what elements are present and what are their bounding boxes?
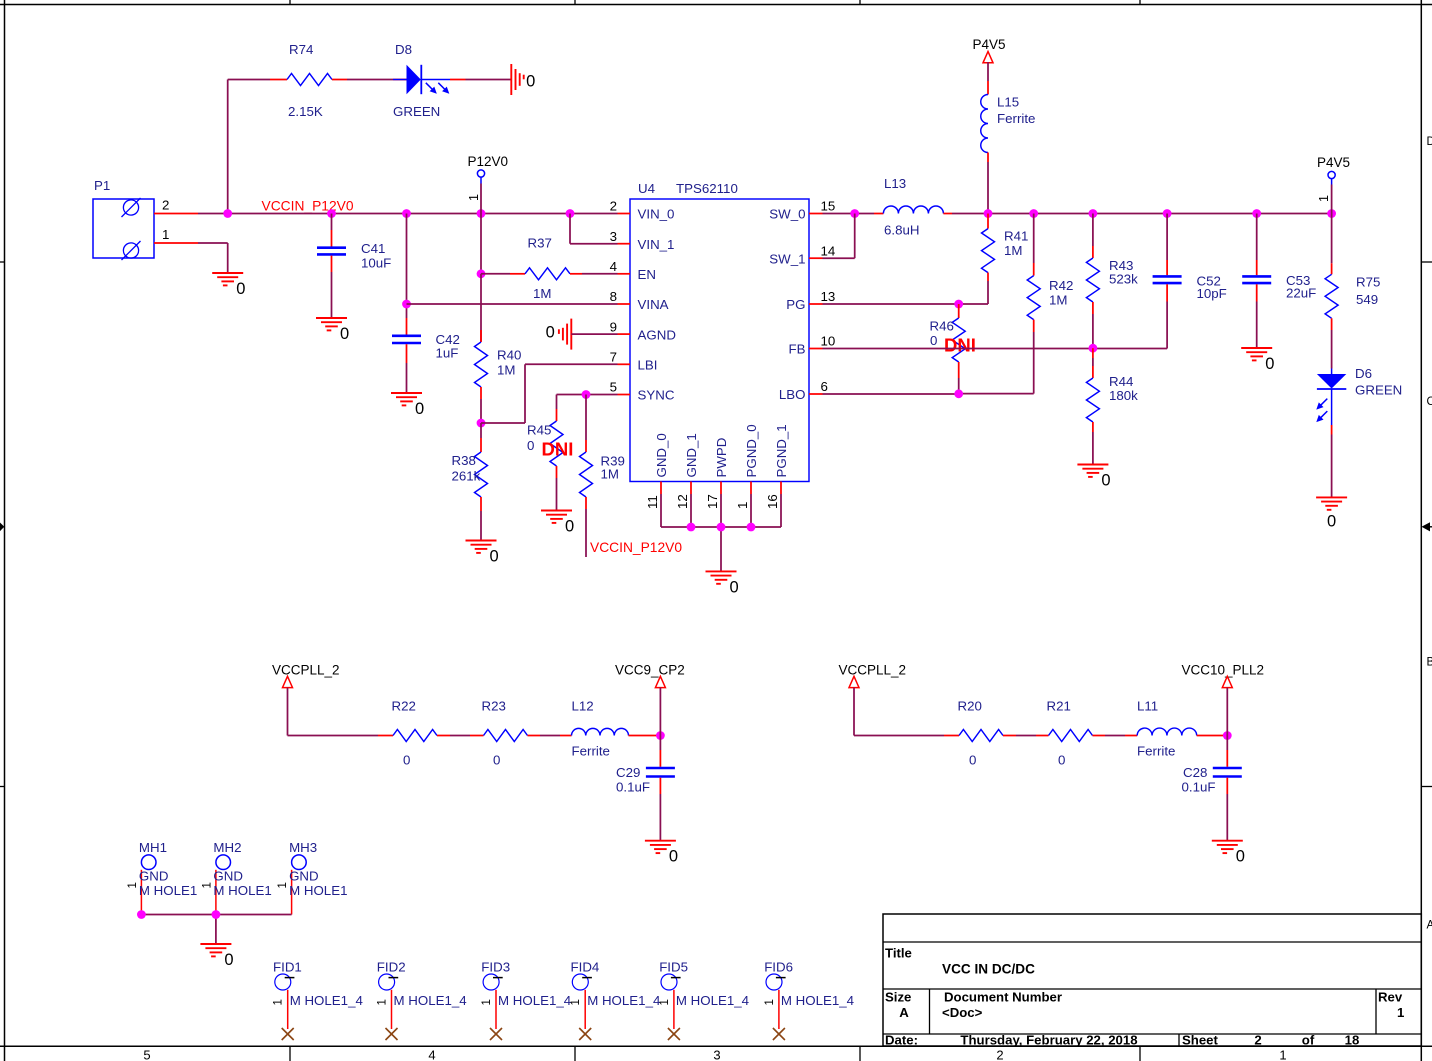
resistor R37 xyxy=(525,236,570,302)
svg-text:16: 16 xyxy=(765,494,780,509)
svg-text:GREEN: GREEN xyxy=(1355,383,1402,398)
svg-text:1M: 1M xyxy=(1004,243,1022,258)
svg-text:10pF: 10pF xyxy=(1197,286,1227,301)
svg-text:0: 0 xyxy=(565,518,574,536)
junction SYNC xyxy=(582,390,591,399)
wire SW_1 jog xyxy=(823,214,855,259)
wire R23 to L12 xyxy=(528,735,572,737)
capacitor C52 xyxy=(1153,214,1227,321)
svg-text:R22: R22 xyxy=(392,699,416,714)
resistor R38 xyxy=(452,423,488,540)
ground AGND xyxy=(546,319,572,350)
net label VCCIN_P12V0 xyxy=(262,199,354,214)
power symbol P4V5 right xyxy=(1317,155,1350,214)
svg-text:Title: Title xyxy=(885,946,912,961)
connector P1 xyxy=(93,178,198,260)
svg-text:1: 1 xyxy=(162,227,169,242)
ground under D6 xyxy=(1316,497,1347,530)
wire LBO xyxy=(823,365,1034,394)
svg-text:D6: D6 xyxy=(1355,366,1372,381)
svg-text:2: 2 xyxy=(610,199,617,214)
svg-text:2: 2 xyxy=(162,198,169,213)
wire MH bus xyxy=(141,915,291,944)
svg-text:MH1: MH1 xyxy=(139,840,167,855)
svg-text:P1: P1 xyxy=(94,178,110,193)
title block xyxy=(883,914,1421,1048)
svg-text:1M: 1M xyxy=(601,467,619,482)
resistor R21 xyxy=(1047,699,1093,768)
svg-text:VIN_0: VIN_0 xyxy=(638,207,675,222)
mounting hole MH1 xyxy=(127,840,197,915)
svg-text:M HOLE1_4: M HOLE1_4 xyxy=(781,993,854,1008)
svg-text:1: 1 xyxy=(481,999,493,1005)
resistor R22 xyxy=(392,699,437,768)
wire R20 to R21 xyxy=(1003,735,1049,737)
svg-text:SW_0: SW_0 xyxy=(769,207,805,222)
svg-text:1: 1 xyxy=(735,502,750,509)
svg-text:3: 3 xyxy=(713,1048,720,1061)
svg-text:5: 5 xyxy=(610,380,617,395)
junction VINA xyxy=(402,300,411,309)
svg-text:180k: 180k xyxy=(1109,388,1138,403)
svg-text:0: 0 xyxy=(415,400,424,418)
wire R37 to pin EN xyxy=(570,273,618,275)
junction A5 xyxy=(566,209,575,218)
svg-text:0: 0 xyxy=(730,578,739,596)
power symbol P12V0 xyxy=(467,154,508,214)
svg-text:FID5: FID5 xyxy=(659,960,688,975)
wire VINA xyxy=(407,303,618,305)
svg-text:4: 4 xyxy=(610,259,617,274)
junction MH1 xyxy=(137,910,146,919)
svg-text:3: 3 xyxy=(610,229,617,244)
svg-text:GND_0: GND_0 xyxy=(654,433,669,477)
wire L15 to bus xyxy=(987,153,989,214)
junction G1 xyxy=(687,523,696,532)
svg-text:R23: R23 xyxy=(482,699,506,714)
wire EN to R37 xyxy=(481,273,525,275)
resistor R45 (DNI) xyxy=(527,409,563,510)
svg-text:M HOLE1: M HOLE1 xyxy=(139,883,197,898)
capacitor C42 xyxy=(392,214,460,393)
wire EN junction xyxy=(480,214,482,273)
wire L13 to node xyxy=(943,213,988,215)
power symbol VCCPLL_2 left xyxy=(272,663,340,736)
svg-text:0: 0 xyxy=(1058,753,1065,768)
ground under C41 xyxy=(316,318,349,343)
resistor R42 xyxy=(1027,214,1073,366)
fiducial FID3 xyxy=(481,960,571,1041)
svg-text:PG: PG xyxy=(786,297,805,312)
wire VCCPLL to R20 xyxy=(854,735,959,737)
wire VCCPLL to R22 xyxy=(288,735,394,737)
svg-text:TPS62110: TPS62110 xyxy=(676,181,738,196)
svg-text:SYNC: SYNC xyxy=(638,388,675,403)
svg-text:5: 5 xyxy=(143,1048,150,1061)
capacitor C28 xyxy=(1182,736,1242,841)
svg-text:2.15K: 2.15K xyxy=(288,104,323,119)
wire R21 to L11 xyxy=(1093,735,1138,737)
svg-text:P4V5: P4V5 xyxy=(1317,155,1350,170)
svg-text:0: 0 xyxy=(490,548,499,566)
svg-text:13: 13 xyxy=(821,289,836,304)
wire P1 pin2 to VCCIN bus xyxy=(198,213,228,215)
svg-text:C28: C28 xyxy=(1183,765,1207,780)
svg-text:U4: U4 xyxy=(638,181,655,196)
svg-text:R45: R45 xyxy=(527,423,551,438)
svg-text:0: 0 xyxy=(1327,513,1336,531)
junction MH2 xyxy=(212,910,221,919)
svg-text:of: of xyxy=(1302,1033,1315,1048)
junction SW xyxy=(850,209,859,218)
svg-text:Size: Size xyxy=(885,990,911,1005)
svg-text:D: D xyxy=(1427,136,1432,148)
resistor R44 xyxy=(1086,348,1138,464)
svg-text:R21: R21 xyxy=(1047,699,1071,714)
svg-text:R20: R20 xyxy=(958,699,982,714)
wire D8 to ground xyxy=(450,79,511,81)
svg-text:MH3: MH3 xyxy=(289,840,317,855)
svg-text:EN: EN xyxy=(638,267,656,282)
svg-text:DNI: DNI xyxy=(944,335,976,356)
svg-text:Sheet: Sheet xyxy=(1182,1033,1219,1048)
svg-text:R74: R74 xyxy=(289,42,313,57)
svg-text:1M: 1M xyxy=(497,363,515,378)
svg-text:GREEN: GREEN xyxy=(393,104,440,119)
junction FB xyxy=(1089,344,1098,353)
ground under C53 xyxy=(1241,348,1274,373)
svg-text:523k: 523k xyxy=(1109,272,1138,287)
fiducial FID2 xyxy=(377,960,467,1041)
svg-text:0: 0 xyxy=(930,333,937,348)
svg-text:0.1uF: 0.1uF xyxy=(616,780,650,795)
svg-text:0: 0 xyxy=(493,753,500,768)
junction B3 xyxy=(1089,209,1098,218)
svg-text:10: 10 xyxy=(821,334,836,349)
svg-text:FID1: FID1 xyxy=(273,960,302,975)
svg-text:549: 549 xyxy=(1356,292,1378,307)
svg-text:FID4: FID4 xyxy=(571,960,600,975)
svg-text:R41: R41 xyxy=(1004,229,1028,244)
svg-text:C29: C29 xyxy=(616,765,640,780)
junction B1 xyxy=(984,209,993,218)
svg-text:6: 6 xyxy=(821,379,828,394)
svg-text:P4V5: P4V5 xyxy=(973,37,1006,52)
svg-text:VCC10_PLL2: VCC10_PLL2 xyxy=(1182,663,1265,678)
resistor R41 xyxy=(982,214,1029,305)
svg-text:1uF: 1uF xyxy=(436,346,459,361)
mounting hole MH3 xyxy=(277,840,347,915)
svg-text:2: 2 xyxy=(1254,1033,1261,1048)
svg-text:0: 0 xyxy=(1101,472,1110,490)
wire FB xyxy=(823,320,1168,349)
svg-text:FB: FB xyxy=(789,342,806,357)
svg-text:C: C xyxy=(1427,396,1432,408)
svg-text:VIN_1: VIN_1 xyxy=(638,237,675,252)
svg-text:L13: L13 xyxy=(884,176,906,191)
svg-text:GND_1: GND_1 xyxy=(684,433,699,477)
junction A2 xyxy=(327,209,336,218)
svg-text:A: A xyxy=(899,1005,909,1020)
svg-text:R75: R75 xyxy=(1356,275,1380,290)
resistor R43 xyxy=(1086,214,1138,348)
svg-text:L12: L12 xyxy=(572,699,594,714)
resistor R46 (DNI) xyxy=(930,304,966,393)
svg-text:VCCPLL_2: VCCPLL_2 xyxy=(839,663,907,678)
svg-text:Ferrite: Ferrite xyxy=(997,111,1035,126)
junction LBO xyxy=(954,389,963,398)
power symbol VCC9_CP2 xyxy=(615,663,685,736)
inductor L11 xyxy=(1137,699,1197,759)
wire L12 to node xyxy=(629,735,661,737)
wire R74 to D8 xyxy=(332,79,393,81)
wire SYNC xyxy=(557,395,618,410)
svg-text:VCCPLL_2: VCCPLL_2 xyxy=(272,663,340,678)
svg-text:1M: 1M xyxy=(1049,293,1067,308)
wire U4 ground bus xyxy=(661,494,781,571)
svg-text:1: 1 xyxy=(659,999,671,1005)
svg-text:8: 8 xyxy=(610,289,617,304)
inductor L15 xyxy=(981,95,1036,153)
junction VCC9 xyxy=(656,731,665,740)
svg-text:VCCIN_P12V0: VCCIN_P12V0 xyxy=(590,540,682,555)
svg-text:Document Number: Document Number xyxy=(944,990,1062,1005)
ground under C42 xyxy=(391,393,424,418)
ground under U4 xyxy=(706,571,739,596)
svg-text:VCC9_CP2: VCC9_CP2 xyxy=(615,663,685,678)
svg-text:9: 9 xyxy=(610,319,617,334)
svg-text:1: 1 xyxy=(1279,1048,1286,1061)
svg-text:VCC IN DC/DC: VCC IN DC/DC xyxy=(942,962,1035,977)
junction B6 xyxy=(1327,209,1336,218)
svg-text:14: 14 xyxy=(821,243,836,258)
ground under R44 xyxy=(1077,465,1110,490)
resistor R40 xyxy=(475,274,522,423)
resistor R39 xyxy=(580,395,625,558)
wire L11 to node xyxy=(1197,735,1228,737)
svg-text:M HOLE1_4: M HOLE1_4 xyxy=(676,993,749,1008)
svg-text:1: 1 xyxy=(201,882,213,888)
junction PG xyxy=(954,300,963,309)
svg-text:PGND_1: PGND_1 xyxy=(774,424,789,477)
svg-text:Ferrite: Ferrite xyxy=(1137,744,1175,759)
svg-text:R46: R46 xyxy=(930,319,954,334)
power symbol P4V5 left xyxy=(973,37,1006,95)
svg-text:R42: R42 xyxy=(1049,278,1073,293)
svg-text:R37: R37 xyxy=(528,236,552,251)
ground under C29 xyxy=(645,841,678,866)
svg-text:2: 2 xyxy=(996,1048,1003,1061)
svg-text:1: 1 xyxy=(1317,195,1331,202)
wire P1 pin1 to ground xyxy=(198,243,228,273)
wire VOUT bus xyxy=(988,213,1332,215)
junction VCC10 xyxy=(1223,731,1232,740)
svg-text:1: 1 xyxy=(273,999,285,1005)
svg-text:FID6: FID6 xyxy=(764,960,793,975)
svg-text:PWPD: PWPD xyxy=(714,438,729,478)
svg-text:M HOLE1_4: M HOLE1_4 xyxy=(394,993,467,1008)
svg-text:R38: R38 xyxy=(452,453,476,468)
svg-text:0: 0 xyxy=(546,324,555,342)
power symbol VCCPLL_2 right xyxy=(839,663,907,736)
svg-text:0: 0 xyxy=(224,951,233,969)
ground under MH xyxy=(200,944,233,969)
ground under P1 xyxy=(212,273,245,298)
svg-text:0: 0 xyxy=(527,438,534,453)
svg-text:L15: L15 xyxy=(997,95,1019,110)
ground under R38 xyxy=(466,541,499,566)
svg-text:11: 11 xyxy=(645,495,660,509)
ground under R45 xyxy=(541,511,574,536)
svg-text:L11: L11 xyxy=(1137,699,1158,714)
junction G2 xyxy=(717,523,726,532)
wire LBI link xyxy=(481,364,618,423)
mounting hole MH2 xyxy=(201,840,271,915)
junction A3 xyxy=(402,209,411,218)
svg-text:1M: 1M xyxy=(533,286,551,301)
svg-text:6.8uH: 6.8uH xyxy=(884,223,919,238)
svg-text:P12V0: P12V0 xyxy=(468,154,509,169)
junction B4 xyxy=(1163,209,1172,218)
inductor L13 xyxy=(883,176,943,238)
svg-text:1: 1 xyxy=(127,882,139,888)
svg-text:PGND_0: PGND_0 xyxy=(744,424,759,477)
svg-text:1: 1 xyxy=(570,999,582,1005)
junction A4 xyxy=(477,209,486,218)
svg-text:0: 0 xyxy=(669,848,678,866)
svg-text:0: 0 xyxy=(236,280,245,298)
resistor R23 xyxy=(482,699,528,768)
svg-text:B: B xyxy=(1427,657,1432,669)
svg-text:4: 4 xyxy=(428,1048,435,1061)
junction A1 xyxy=(223,209,232,218)
svg-text:SW_1: SW_1 xyxy=(769,251,805,266)
capacitor C29 xyxy=(616,736,675,841)
svg-text:0: 0 xyxy=(403,753,410,768)
wire VIN_1 jog xyxy=(570,214,618,244)
resistor R75 xyxy=(1325,214,1380,369)
svg-text:1: 1 xyxy=(277,882,289,888)
svg-text:<Doc>: <Doc> xyxy=(942,1005,983,1020)
LED D6 xyxy=(1316,366,1402,425)
svg-text:1: 1 xyxy=(764,999,776,1005)
svg-text:M HOLE1: M HOLE1 xyxy=(289,883,347,898)
svg-text:A: A xyxy=(1427,920,1432,932)
svg-text:1: 1 xyxy=(1397,1005,1404,1020)
junction R40 bottom xyxy=(477,419,486,428)
svg-text:Ferrite: Ferrite xyxy=(572,744,610,759)
net label VCCIN_P12V0 lower xyxy=(590,540,682,555)
fiducial FID4 xyxy=(570,960,660,1041)
svg-text:0: 0 xyxy=(526,72,535,90)
svg-text:18: 18 xyxy=(1345,1033,1360,1048)
svg-text:0: 0 xyxy=(1265,355,1274,373)
svg-text:GND: GND xyxy=(289,869,319,884)
wire VCCIN bus xyxy=(228,213,618,215)
svg-text:M HOLE1_4: M HOLE1_4 xyxy=(290,993,363,1008)
fiducial FID5 xyxy=(659,960,749,1041)
svg-text:Date:: Date: xyxy=(885,1033,918,1048)
junction B5 xyxy=(1252,209,1261,218)
svg-text:GND: GND xyxy=(213,869,243,884)
ground right of D8 xyxy=(511,64,535,95)
svg-text:LBI: LBI xyxy=(638,358,658,373)
wire SW_0 xyxy=(823,213,884,215)
svg-text:Rev: Rev xyxy=(1378,990,1403,1005)
svg-text:0.1uF: 0.1uF xyxy=(1182,780,1216,795)
svg-text:FID2: FID2 xyxy=(377,960,406,975)
svg-text:M HOLE1_4: M HOLE1_4 xyxy=(498,993,571,1008)
capacitor C41 xyxy=(317,214,391,318)
svg-text:M HOLE1: M HOLE1 xyxy=(213,883,271,898)
svg-text:LBO: LBO xyxy=(779,387,806,402)
svg-text:1: 1 xyxy=(377,999,389,1005)
svg-text:DNI: DNI xyxy=(542,439,574,460)
svg-text:10uF: 10uF xyxy=(361,256,391,271)
svg-text:FID3: FID3 xyxy=(481,960,510,975)
wire PG xyxy=(823,303,989,305)
svg-text:D8: D8 xyxy=(395,42,412,57)
svg-text:7: 7 xyxy=(610,350,617,365)
svg-text:M HOLE1_4: M HOLE1_4 xyxy=(587,993,660,1008)
svg-text:MH2: MH2 xyxy=(213,840,241,855)
resistor R20 xyxy=(958,699,1004,768)
wire AGND to pin9 xyxy=(571,333,617,335)
svg-text:12: 12 xyxy=(675,494,690,509)
svg-text:C41: C41 xyxy=(361,241,385,256)
svg-text:17: 17 xyxy=(705,494,720,509)
svg-text:0: 0 xyxy=(969,753,976,768)
label DNI R45 xyxy=(542,439,574,460)
svg-text:R44: R44 xyxy=(1109,374,1133,389)
fiducial FID1 xyxy=(273,960,363,1041)
junction EN xyxy=(477,269,486,278)
svg-text:0: 0 xyxy=(340,325,349,343)
resistor R74 xyxy=(287,42,332,119)
wire R22 to R23 xyxy=(437,735,484,737)
ground under C28 xyxy=(1212,841,1245,866)
svg-text:0: 0 xyxy=(1236,848,1245,866)
svg-text:VINA: VINA xyxy=(638,297,669,312)
capacitor C53 xyxy=(1242,214,1316,348)
svg-text:VCCIN_P12V0: VCCIN_P12V0 xyxy=(262,199,354,214)
svg-text:AGND: AGND xyxy=(638,327,676,342)
junction G3 xyxy=(747,523,756,532)
svg-text:1: 1 xyxy=(467,194,481,201)
inductor L12 xyxy=(572,699,629,759)
svg-text:15: 15 xyxy=(821,199,836,214)
junction B2 xyxy=(1029,209,1038,218)
IC U4 TPS62110 xyxy=(610,181,836,509)
LED D8 xyxy=(393,42,450,119)
power symbol VCC10_PLL2 xyxy=(1182,663,1265,736)
fiducial FID6 xyxy=(764,960,854,1041)
label DNI R46 xyxy=(944,335,976,356)
svg-text:R40: R40 xyxy=(497,347,521,362)
wire junction up to R74 row xyxy=(228,80,287,214)
svg-text:22uF: 22uF xyxy=(1286,286,1316,301)
svg-text:Thursday, February 22, 2018: Thursday, February 22, 2018 xyxy=(960,1033,1137,1048)
svg-text:261k: 261k xyxy=(452,469,481,484)
wire D6 to ground xyxy=(1331,425,1333,497)
svg-text:GND: GND xyxy=(139,869,169,884)
